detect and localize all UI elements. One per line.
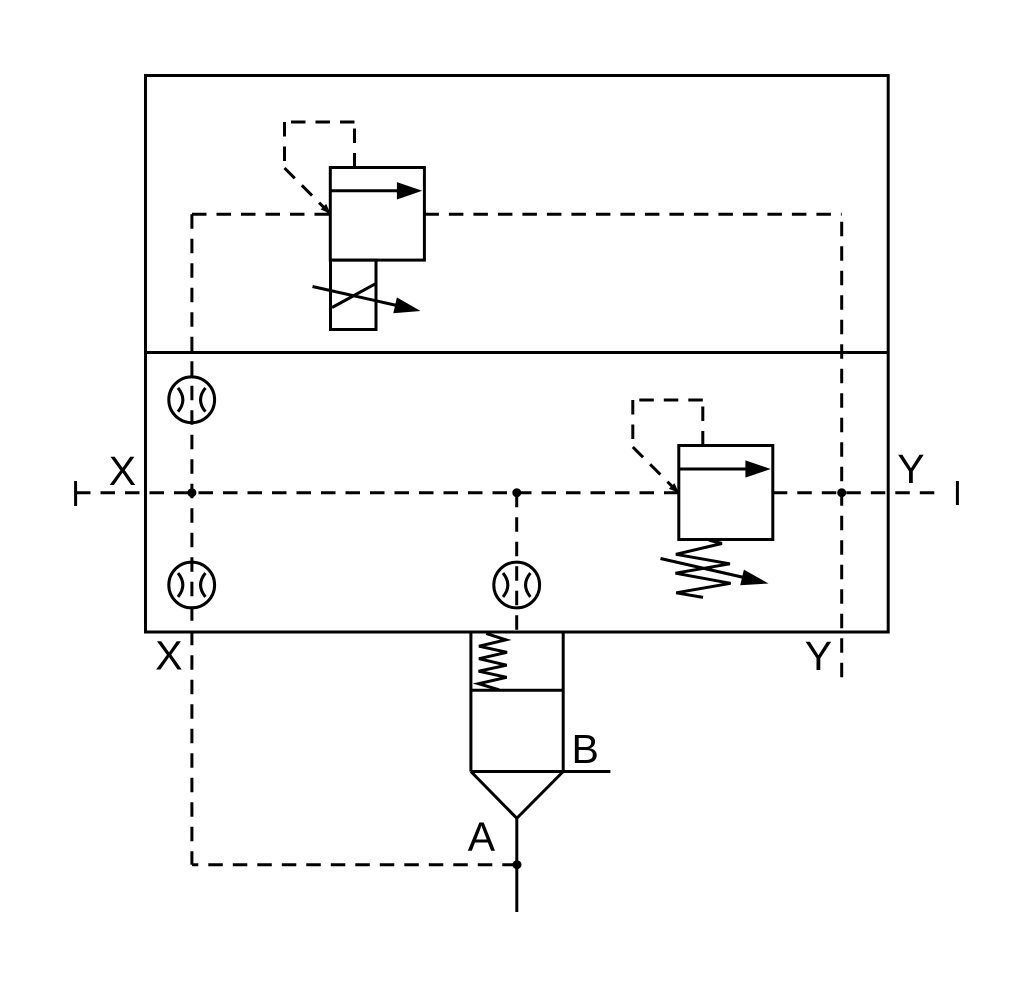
svg-text:Y: Y [805, 633, 832, 679]
svg-text:Y: Y [897, 446, 924, 492]
svg-text:X: X [109, 448, 136, 494]
svg-text:X: X [155, 633, 182, 679]
svg-text:B: B [572, 726, 599, 772]
svg-text:A: A [468, 814, 496, 860]
